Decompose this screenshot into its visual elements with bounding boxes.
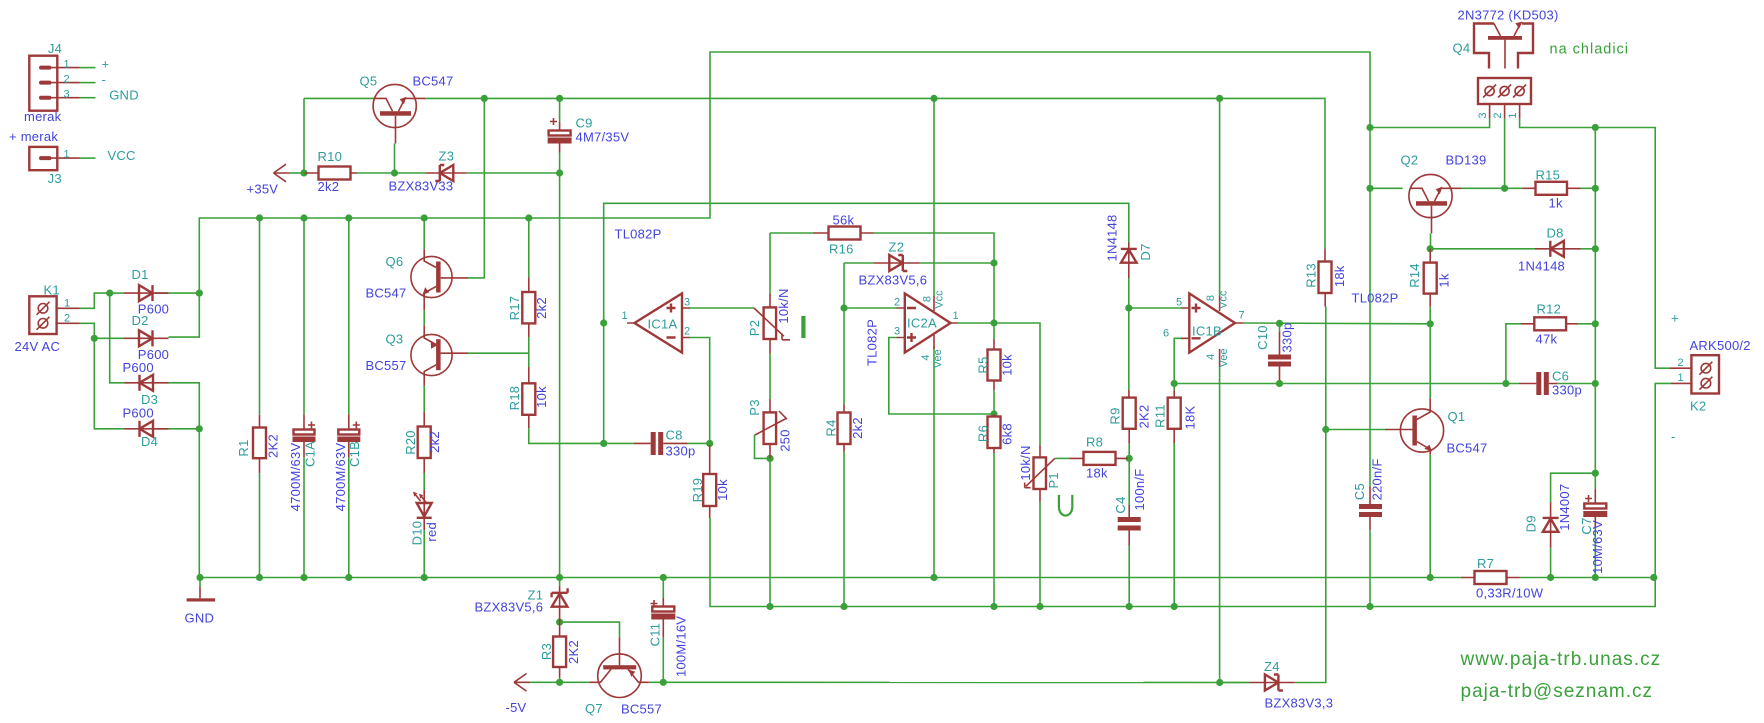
junction (559.6,622.1) — [556, 619, 563, 626]
transistor Q3 BC557 — [411, 325, 468, 386]
svg-text:P1: P1 — [1046, 472, 1061, 488]
svg-text:2k2: 2k2 — [534, 297, 549, 319]
svg-text:C5: C5 — [1352, 483, 1367, 500]
resistor R14 — [1424, 249, 1437, 307]
wire R16 left — [770, 232, 813, 234]
supply arrow -5V — [514, 674, 530, 692]
junction (348.8,577.5) — [345, 574, 352, 581]
wire K1 pin2 to bridge — [80, 323, 125, 429]
junction (94.3,338.3) — [91, 335, 98, 342]
wire Q7 base to Z1-R3 node — [560, 622, 620, 637]
svg-text:R17: R17 — [507, 296, 522, 321]
op-amp IC2A TL082P — [897, 293, 959, 352]
wire C4 bottom — [1128, 546, 1130, 607]
capacitor C5 220n/F — [1359, 487, 1382, 531]
svg-text:R7: R7 — [1477, 556, 1494, 571]
junction (424.2,218) — [421, 214, 428, 221]
svg-text:4: 4 — [1205, 354, 1217, 360]
svg-text:Q5: Q5 — [360, 74, 378, 89]
svg-text:J4: J4 — [48, 41, 62, 56]
junction (1595.3,323.8) — [1592, 320, 1599, 327]
wire C1B bottom — [348, 457, 350, 577]
wire P3 bottom — [769, 458, 771, 606]
svg-text:Vee: Vee — [1218, 348, 1230, 367]
wire D1 left — [110, 292, 124, 294]
wire GND rail — [200, 577, 1461, 579]
junction (528.8,218) — [525, 214, 532, 221]
ground symbol GND — [187, 587, 216, 602]
diode D4 P600 — [125, 421, 169, 437]
resistor R4 — [838, 405, 851, 452]
svg-text:2k2: 2k2 — [850, 417, 865, 439]
wire Z4 to R13 net riser — [1295, 307, 1326, 683]
svg-text:R15: R15 — [1536, 168, 1561, 183]
wire D7 bottom to R9 — [1128, 278, 1130, 390]
svg-text:1: 1 — [1507, 112, 1519, 118]
svg-text:3: 3 — [1477, 112, 1489, 118]
wire IC1B pin8 Vcc — [1219, 98, 1221, 296]
svg-text:3: 3 — [684, 297, 690, 309]
junction (994,606.5) — [990, 603, 997, 610]
svg-text:6k8: 6k8 — [999, 423, 1014, 445]
svg-text:330p: 330p — [1552, 383, 1582, 398]
svg-text:K1: K1 — [44, 283, 60, 298]
wire R9 bottom — [1128, 444, 1130, 459]
svg-text:8: 8 — [922, 296, 934, 302]
node U marker — [1059, 495, 1072, 516]
svg-text:P3: P3 — [747, 399, 762, 415]
svg-text:1N4148: 1N4148 — [1518, 259, 1565, 274]
resistor R10 — [305, 167, 357, 180]
wire socket pin1 to K2 pin2 — [1520, 119, 1670, 369]
wire IC2A pin3 feedback — [889, 338, 994, 415]
junction (844,308) — [840, 304, 847, 311]
junction (1595.3,248.8) — [1592, 245, 1599, 252]
svg-text:red: red — [424, 522, 439, 542]
wire Q6 collector — [423, 218, 425, 249]
wire R1 bottom — [259, 473, 261, 577]
svg-text:D7: D7 — [1138, 243, 1153, 260]
svg-text:VCC: VCC — [108, 148, 136, 163]
svg-text:BZX83V5,6: BZX83V5,6 — [859, 273, 928, 288]
svg-text:2: 2 — [684, 326, 690, 338]
zener Z1 BZX83V5,6 — [552, 586, 568, 622]
svg-text:D10: D10 — [409, 521, 424, 546]
svg-text:330p: 330p — [666, 444, 696, 459]
svg-text:+35V: +35V — [247, 182, 279, 197]
svg-text:+: + — [102, 57, 110, 72]
capacitor C6 330p — [1519, 372, 1557, 395]
junction (348.8,218) — [345, 214, 352, 221]
wire -5V row left — [528, 681, 590, 683]
svg-text:C10: C10 — [1255, 325, 1270, 350]
svg-text:Vee: Vee — [932, 349, 944, 368]
junction (200,577.5) — [196, 574, 203, 581]
svg-text:Vcc: Vcc — [1217, 290, 1229, 309]
svg-text:C4: C4 — [1113, 496, 1128, 513]
junction (1219.7,682.5) — [1216, 679, 1223, 686]
wire R6 bottom — [993, 453, 995, 607]
resistor R8 — [1069, 452, 1128, 465]
svg-text:BC557: BC557 — [366, 358, 407, 373]
junction (603.7,323) — [600, 319, 607, 326]
junction (1370,606.5) — [1366, 603, 1373, 610]
diode D1 P600 — [124, 285, 169, 301]
resistor R7 — [1461, 571, 1520, 584]
wire C10 bottom — [1279, 380, 1281, 384]
wire IC2A output to P1 — [958, 323, 1040, 445]
junction (663.3,682.3) — [660, 679, 667, 686]
wire C10 top — [1279, 323, 1281, 331]
wire D9 bottom — [1550, 548, 1552, 578]
svg-text:18k: 18k — [1332, 265, 1347, 287]
svg-text:C6: C6 — [1552, 369, 1569, 384]
wire C5 bottom to rail — [1369, 530, 1371, 606]
svg-text:10k/N: 10k/N — [776, 288, 791, 323]
wire Q3 base — [468, 352, 529, 354]
svg-text:2: 2 — [1492, 112, 1504, 118]
potentiometer P1 10k/N — [1025, 445, 1055, 502]
junction (770,458.4) — [766, 455, 773, 462]
wire C8 left — [604, 442, 634, 444]
wire Q6-Q3 link — [423, 310, 425, 325]
junction (1595.3,188.3) — [1592, 185, 1599, 192]
junction (1430.2,248.8) — [1427, 245, 1434, 252]
junction (304,218) — [300, 214, 307, 221]
svg-text:TL082P: TL082P — [1352, 291, 1399, 306]
rotated labels — [236, 112, 1605, 677]
svg-text:10M/63V: 10M/63V — [1590, 520, 1605, 574]
wire Q1 base — [1326, 429, 1385, 431]
wire R3 bottom — [559, 678, 561, 683]
op-amp IC1A TL082P — [627, 293, 690, 352]
svg-text:D2: D2 — [132, 313, 149, 328]
svg-text:+: + — [1671, 311, 1679, 326]
diode D3 P600 — [125, 375, 169, 391]
wire D4 right — [155, 428, 200, 430]
wire C11 top — [662, 578, 664, 599]
svg-text:1: 1 — [64, 298, 70, 310]
svg-text:Q4: Q4 — [1453, 41, 1471, 56]
wire IC1A output riser to D7 — [604, 203, 1129, 443]
capacitor C1A 4700M/63V — [293, 414, 316, 457]
svg-text:Q2: Q2 — [1401, 153, 1419, 168]
wire IC1A pin3 — [690, 307, 754, 309]
wire Vcc row to R13 — [425, 98, 1326, 248]
svg-text:C8: C8 — [666, 428, 683, 443]
junction (1595.3,473.2) — [1592, 470, 1599, 477]
wire D8 left — [1430, 248, 1535, 250]
svg-text:R12: R12 — [1537, 302, 1562, 317]
svg-text:1k: 1k — [1437, 273, 1452, 287]
wire R12 left — [1506, 324, 1521, 384]
svg-text:na chladici: na chladici — [1550, 42, 1630, 58]
wire IC1B pin5 — [1129, 307, 1181, 309]
svg-text:C11: C11 — [648, 623, 663, 647]
svg-text:2N3772 (KD503): 2N3772 (KD503) — [1458, 8, 1559, 23]
wire C4 top — [1128, 458, 1130, 505]
svg-text:4700M/63V: 4700M/63V — [333, 443, 348, 512]
svg-text:R10: R10 — [318, 149, 343, 164]
wire rail right of R7 — [1520, 577, 1654, 579]
svg-text:100M/16V: 100M/16V — [674, 616, 689, 677]
capacitor C9 4M7/35V polarized — [548, 118, 572, 153]
wire Q3 collector to R20 — [423, 386, 425, 412]
svg-text:R5: R5 — [976, 356, 991, 373]
svg-text:BC547: BC547 — [1447, 441, 1488, 456]
junction (844,606.5) — [840, 603, 847, 610]
resistor R17 — [522, 278, 535, 338]
wire R18 to C8 — [529, 428, 604, 443]
svg-text:10k: 10k — [534, 386, 549, 408]
svg-text:merak: merak — [24, 109, 62, 124]
svg-text:R4: R4 — [823, 419, 838, 436]
zener Z3 BZX83V33 — [425, 165, 467, 181]
junction (559.6,682.3) — [556, 679, 563, 686]
power transistor Q4 2N3772 — [1474, 22, 1533, 69]
junction (994,414) — [990, 410, 997, 417]
svg-text:4700M/63V: 4700M/63V — [288, 443, 303, 512]
wire Q5 base — [394, 144, 396, 174]
wire C1A bottom — [303, 457, 305, 577]
resistor R6 — [988, 414, 1001, 453]
LED D10 red — [413, 490, 432, 530]
svg-text:-: - — [102, 72, 107, 87]
junction (770,606.5) — [766, 603, 773, 610]
resistor R18 — [522, 367, 535, 428]
node I marker — [801, 316, 805, 338]
junction (559.6,98.4) — [556, 95, 563, 102]
wire D3 right riser — [169, 383, 200, 429]
resistor R3 — [553, 622, 566, 677]
wire C7 bottom — [1594, 528, 1596, 578]
svg-text:7: 7 — [1239, 310, 1245, 322]
wire Q5 collector row — [304, 97, 374, 99]
connector J4 merak — [29, 56, 79, 111]
resistor R5 — [988, 339, 1001, 390]
wire C9 bottom net down to GND rail — [559, 153, 561, 578]
junction (1129.2,606.5) — [1126, 603, 1133, 610]
wire R17 top — [528, 218, 530, 278]
svg-text:2K2: 2K2 — [1136, 405, 1151, 429]
wire IC1B pin6 — [1174, 338, 1183, 383]
wire -5V row right — [649, 681, 1249, 683]
junction (109.7,293.1) — [106, 290, 113, 297]
wire Q2 bottom stub — [1430, 233, 1432, 248]
wire P2-P3 link — [769, 354, 771, 400]
svg-text:3: 3 — [894, 326, 900, 338]
svg-text:Z3: Z3 — [439, 149, 455, 164]
supply arrow +35V — [274, 164, 290, 182]
svg-text:R9: R9 — [1107, 407, 1122, 424]
svg-text:Z2: Z2 — [889, 240, 905, 255]
wire R4 bottom to sense rail — [843, 452, 845, 607]
svg-text:K2: K2 — [1690, 399, 1706, 414]
svg-text:R16: R16 — [829, 242, 854, 257]
junction (1174.2,383.5) — [1171, 380, 1178, 387]
junction (1040,606.5) — [1036, 603, 1043, 610]
transistor Q1 BC547 — [1385, 398, 1444, 455]
svg-text:2K2: 2K2 — [265, 434, 280, 458]
wire P1 bottom — [1039, 502, 1041, 607]
junction (484.3,98.4) — [481, 95, 488, 102]
wire Z3 to C9 — [467, 172, 560, 174]
svg-text:1N4007: 1N4007 — [1557, 484, 1572, 531]
svg-text:C1B: C1B — [347, 441, 362, 467]
junction (1325.8,429.5) — [1322, 426, 1329, 433]
wire socket pin2 — [1504, 119, 1506, 189]
svg-text:R11: R11 — [1153, 404, 1168, 428]
capacitor C4 100n/F — [1118, 505, 1141, 546]
wire D10 to rail — [423, 530, 425, 578]
wire GND stem — [199, 578, 201, 588]
svg-text:10k: 10k — [999, 354, 1014, 376]
wire Z2 row — [844, 262, 873, 264]
svg-text:4: 4 — [920, 354, 932, 360]
svg-text:47k: 47k — [1536, 332, 1558, 347]
junction (1430.2,323.8) — [1427, 320, 1434, 327]
svg-text:6: 6 — [1163, 328, 1169, 340]
wire socket pin3 — [1370, 119, 1490, 128]
capacitor C1B 4700M/63V — [337, 414, 360, 457]
svg-text:24V AC: 24V AC — [15, 339, 61, 354]
resistor R12 — [1521, 317, 1578, 330]
svg-text:IC1A: IC1A — [648, 317, 678, 332]
svg-text:-5V: -5V — [506, 700, 527, 715]
svg-text:R8: R8 — [1086, 435, 1103, 450]
svg-text:3: 3 — [64, 89, 70, 101]
wire K1 pin1 to bridge — [80, 293, 110, 308]
junction (994,263) — [990, 259, 997, 266]
svg-text:P600: P600 — [123, 360, 154, 375]
svg-text:GND: GND — [185, 611, 215, 626]
svg-text:5: 5 — [1176, 297, 1182, 309]
svg-text:Q1: Q1 — [1448, 409, 1466, 424]
svg-text:D1: D1 — [132, 267, 149, 282]
wire R12 right — [1578, 323, 1595, 325]
svg-text:4M7/35V: 4M7/35V — [576, 130, 630, 145]
svg-text:8: 8 — [1205, 295, 1217, 301]
wire IC1B output row — [1243, 322, 1430, 325]
svg-text:R20: R20 — [403, 430, 418, 455]
resistor R15 — [1522, 182, 1580, 195]
svg-text:1: 1 — [64, 149, 70, 161]
transistor Q7 BC557 — [589, 637, 649, 697]
wire +raw bus from bridge to top rail — [199, 52, 1370, 487]
wire Z2 left riser to R4 — [843, 263, 845, 405]
svg-text:Vcc: Vcc — [934, 290, 946, 309]
svg-text:J3: J3 — [48, 171, 62, 186]
svg-text:0,33R/10W: 0,33R/10W — [1476, 586, 1544, 601]
wire Q1 emitter to rail — [1429, 455, 1431, 578]
wire C1A top — [303, 218, 305, 414]
junction (1595.3,577.5) — [1592, 574, 1599, 581]
wire D1 right — [155, 292, 200, 294]
capacitor C8 330p — [634, 432, 688, 455]
junction (1128.8,308) — [1125, 304, 1132, 311]
junction (304,577.5) — [300, 574, 307, 581]
junction (394.5,173) — [391, 169, 398, 176]
wire D8 net riser — [1594, 128, 1596, 474]
svg-text:TL082P: TL082P — [864, 319, 879, 366]
wire +35V riser — [303, 98, 305, 173]
svg-text:BZX83V33: BZX83V33 — [389, 179, 454, 194]
svg-text:R6: R6 — [976, 425, 991, 442]
wire R11 top — [1173, 384, 1175, 391]
wire P2 top — [769, 233, 771, 294]
zener Z4 BZX83V3,3 — [1249, 675, 1295, 691]
svg-text:1: 1 — [1678, 372, 1684, 384]
junction (259.5,577.5) — [256, 574, 263, 581]
wire Q6 base riser — [468, 98, 484, 278]
svg-text:TL082P: TL082P — [615, 227, 662, 242]
wire R10 to Z3 — [357, 172, 426, 174]
svg-text:BC547: BC547 — [366, 286, 407, 301]
svg-text:BC547: BC547 — [413, 74, 454, 89]
svg-text:1: 1 — [953, 310, 959, 322]
svg-text:P600: P600 — [123, 406, 154, 421]
diode D9 1N4007 — [1543, 502, 1559, 548]
wire J3 pin stub — [80, 157, 96, 159]
wire Q1 collector riser — [1429, 324, 1431, 398]
wire R11 bottom — [1173, 443, 1175, 607]
wire P2 wiper row — [844, 307, 897, 309]
svg-text:1k: 1k — [1549, 196, 1563, 211]
connector K2 ARK500/2 — [1670, 355, 1719, 393]
svg-text:10k: 10k — [715, 479, 730, 501]
svg-text:100n/F: 100n/F — [1132, 469, 1147, 511]
resistor R16 — [813, 227, 874, 240]
wire D8 right — [1581, 248, 1596, 250]
transistor Q5 BC547 — [373, 84, 425, 143]
svg-text:www.paja-trb.unas.cz: www.paja-trb.unas.cz — [1460, 649, 1662, 670]
svg-text:56k: 56k — [833, 213, 855, 228]
wire C9 top — [559, 98, 561, 122]
wire D1-D3 link — [110, 293, 125, 383]
op-amp IC1B TL082P — [1181, 293, 1243, 367]
svg-text:2: 2 — [64, 74, 70, 86]
junction (663.3,577.5) — [660, 574, 667, 581]
wire IC2A pin4 Vee — [933, 346, 935, 578]
svg-text:BD139: BD139 — [1446, 153, 1487, 168]
svg-text:18K: 18K — [1182, 405, 1197, 429]
capacitor C11 100M/16V polarized — [651, 598, 676, 637]
capacitor C10 330p — [1268, 331, 1291, 380]
junction (199.3,428.8) — [196, 425, 203, 432]
svg-text:1N4148: 1N4148 — [1105, 214, 1120, 261]
diode D8 1N4148 — [1535, 241, 1581, 257]
resistor R11 — [1168, 391, 1181, 444]
svg-text:ARK500/2: ARK500/2 — [1690, 338, 1751, 353]
svg-text:10k/N: 10k/N — [1018, 445, 1033, 480]
svg-text:R19: R19 — [690, 478, 705, 503]
socket for Q4 — [1478, 78, 1531, 119]
potentiometer P3 250 — [755, 399, 788, 458]
svg-text:250: 250 — [778, 429, 793, 451]
junction (1504.6,188.3) — [1501, 185, 1508, 192]
svg-text:P2: P2 — [747, 320, 762, 336]
wire D2 left — [94, 337, 124, 339]
wire +35V stub — [289, 172, 305, 174]
svg-text:BZX83V5,6: BZX83V5,6 — [475, 600, 544, 615]
junction (994,323) — [990, 319, 997, 326]
wire R15 right — [1581, 187, 1596, 189]
svg-text:D4: D4 — [141, 434, 158, 449]
junction (1595.3,127.5) — [1592, 124, 1599, 131]
junction (603.7,443.4) — [600, 440, 607, 447]
svg-text:2: 2 — [64, 313, 70, 325]
wire R5-R6 link — [993, 390, 995, 414]
